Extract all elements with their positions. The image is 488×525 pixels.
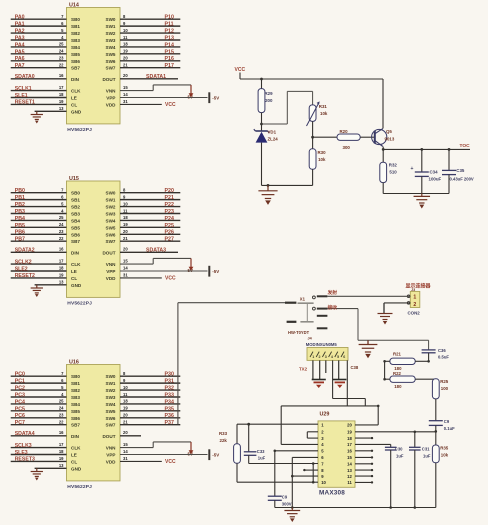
svg-text:14: 14	[123, 92, 128, 97]
wire PA4 to U14 pin 25	[11, 46, 67, 48]
svg-text:C36: C36	[438, 348, 446, 353]
wire U16 pin 10 to P32	[120, 389, 180, 391]
wire RESET1 to U14	[11, 103, 67, 105]
svg-text:P16: P16	[165, 56, 174, 62]
svg-text:MODINXUN0M5: MODINXUN0M5	[306, 342, 338, 347]
resistor R20 300	[337, 134, 360, 140]
svg-text:RESET2: RESET2	[15, 273, 35, 279]
svg-text:SW1: SW1	[106, 24, 116, 29]
svg-text:22: 22	[59, 420, 64, 425]
wire RESET3 to U16	[11, 460, 67, 462]
wire PB0 to U15 pin 7	[11, 192, 67, 194]
svg-text:R21: R21	[393, 351, 401, 356]
svg-text:PC3: PC3	[15, 392, 25, 398]
svg-text:SB5: SB5	[71, 225, 80, 230]
svg-text:HV5622PJ: HV5622PJ	[67, 484, 92, 490]
node VCC-R29 junction	[260, 78, 263, 81]
svg-text:21: 21	[123, 420, 128, 425]
svg-text:18: 18	[59, 266, 64, 271]
svg-text:R33: R33	[219, 431, 228, 436]
svg-text:20: 20	[347, 423, 352, 428]
wire U15 GND pin 13	[35, 284, 67, 286]
svg-text:11: 11	[123, 392, 128, 397]
svg-text:2: 2	[319, 355, 321, 359]
svg-text:300V: 300V	[282, 501, 292, 506]
wire U16 VPP pin 14 to -5V	[120, 454, 208, 456]
wire U29 pin9 tap	[292, 475, 318, 477]
svg-text:SB2: SB2	[71, 388, 80, 393]
svg-text:PC5: PC5	[15, 406, 25, 412]
svg-text:10k: 10k	[318, 157, 326, 162]
svg-text:PA2: PA2	[15, 28, 25, 34]
svg-text:13: 13	[59, 463, 64, 468]
capacitor C31 1uF	[414, 432, 416, 448]
wire U29 pin18 stub	[355, 437, 372, 439]
node emitter-R32	[382, 148, 385, 151]
ground module 2	[333, 379, 347, 381]
svg-text:16: 16	[59, 247, 64, 252]
svg-text:20: 20	[123, 56, 128, 61]
svg-text:31: 31	[123, 456, 128, 461]
module pins to ground 1	[312, 360, 314, 379]
node C33 top	[247, 423, 250, 426]
svg-text:SDATA1: SDATA1	[146, 74, 166, 80]
svg-text:C31: C31	[422, 447, 430, 452]
svg-text:P33: P33	[165, 392, 174, 398]
wire PA7 to U14 pin 22	[11, 67, 67, 69]
svg-text:21: 21	[123, 236, 128, 241]
svg-text:LE: LE	[71, 96, 77, 101]
svg-text:R20: R20	[340, 129, 349, 134]
svg-text:17: 17	[347, 442, 352, 447]
svg-text:C35: C35	[456, 168, 465, 173]
svg-text:SDATA4: SDATA4	[15, 431, 35, 437]
svg-text:C34: C34	[430, 170, 439, 175]
svg-text:1: 1	[312, 355, 314, 359]
svg-text:C9: C9	[444, 419, 450, 424]
svg-text:17: 17	[59, 85, 64, 90]
wire PC0 to U16 pin 7	[11, 375, 67, 377]
svg-text:CLK: CLK	[71, 89, 81, 94]
wire U16 DOUT pin 20	[120, 435, 141, 437]
svg-text:CLK: CLK	[71, 446, 81, 451]
wire PC5 to U16 pin 24	[11, 410, 67, 412]
ground connector pin2	[383, 303, 385, 314]
svg-text:VDD: VDD	[106, 276, 116, 281]
svg-text:R35: R35	[440, 446, 449, 451]
svg-text:SW0: SW0	[106, 17, 116, 22]
svg-text:C9: C9	[282, 495, 288, 500]
svg-text:Q5: Q5	[386, 129, 392, 134]
svg-text:TX2: TX2	[299, 367, 308, 372]
node C36-R21	[427, 360, 430, 363]
wire module pin step to H405 rail	[332, 360, 334, 398]
svg-text:SW2: SW2	[106, 31, 116, 36]
ground output stage	[421, 194, 423, 197]
svg-text:CL: CL	[71, 276, 77, 281]
wire PB5 to U15 pin 24	[11, 226, 67, 228]
svg-text:SW6: SW6	[106, 416, 116, 421]
svg-text:-5V: -5V	[212, 269, 219, 274]
svg-text:23: 23	[59, 56, 64, 61]
wire PA6 to U14 pin 23	[11, 60, 67, 62]
svg-text:PB4: PB4	[15, 216, 25, 222]
svg-text:200: 200	[265, 98, 273, 103]
svg-text:20: 20	[123, 247, 128, 252]
svg-text:0.43uF 200V: 0.43uF 200V	[450, 177, 474, 182]
svg-text:U15: U15	[69, 176, 79, 182]
wire PA5 to U14 pin 24	[11, 53, 67, 55]
svg-text:SW5: SW5	[106, 225, 116, 230]
zener diode VD1 ZL24	[261, 124, 263, 131]
svg-text:100uF: 100uF	[429, 177, 442, 182]
svg-text:LE: LE	[71, 269, 77, 274]
wire PA0 to U14 pin 7	[11, 18, 67, 20]
wire U15 pin 10 to P22	[120, 206, 180, 208]
svg-text:19: 19	[347, 430, 352, 435]
wire bottom ground rail	[275, 507, 436, 509]
svg-text:SCLK3: SCLK3	[15, 443, 32, 449]
wire VCC to Q5 collector	[382, 79, 384, 129]
wire PA3 to U14 pin 4	[11, 39, 67, 41]
svg-text:17: 17	[59, 259, 64, 264]
svg-text:PC1: PC1	[15, 379, 25, 385]
trimmer R31 10k	[309, 105, 316, 122]
svg-text:0.1uF: 0.1uF	[444, 426, 455, 431]
svg-text:2: 2	[413, 302, 416, 308]
svg-text:显示连接器: 显示连接器	[406, 283, 432, 290]
wire U29 short right stubs	[355, 450, 372, 452]
svg-text:C33: C33	[257, 449, 265, 454]
svg-text:SW7: SW7	[106, 423, 116, 428]
svg-text:VDD: VDD	[106, 102, 116, 107]
svg-text:15: 15	[123, 442, 128, 447]
svg-text:1uF: 1uF	[396, 453, 404, 458]
svg-text:SB1: SB1	[71, 24, 80, 29]
wire PC3 to U16 pin 4	[11, 396, 67, 398]
resistor R35 10k	[435, 431, 437, 445]
wire PB2 to U15 pin 5	[11, 206, 67, 208]
svg-text:P31: P31	[165, 379, 174, 385]
capacitor C8 300V	[268, 495, 282, 497]
svg-text:P30: P30	[165, 372, 174, 378]
module pins to ground 2	[338, 360, 340, 379]
node A junction	[260, 123, 263, 126]
svg-text:PB7: PB7	[15, 237, 25, 243]
svg-text:U29: U29	[320, 412, 330, 418]
svg-text:VDD: VDD	[106, 459, 116, 464]
svg-text:DOUT: DOUT	[102, 434, 115, 439]
resistor R22 180	[390, 376, 415, 382]
svg-text:SCLK1: SCLK1	[15, 86, 32, 92]
svg-text:VCC: VCC	[165, 276, 176, 282]
wire module pin C38	[346, 360, 348, 406]
svg-text:CLK: CLK	[71, 262, 81, 267]
wire U29 pin2 pin3 tie	[307, 431, 318, 433]
wire U14 DOUT pin 20 to SDATA1	[120, 78, 178, 80]
ground below U14	[36, 111, 38, 114]
wire riser to U29 pin4	[280, 406, 282, 445]
svg-text:SW4: SW4	[106, 402, 116, 407]
wire VCC to R29	[261, 79, 263, 89]
svg-text:R22: R22	[393, 371, 401, 376]
wire U16 VNN pin 15 to -5V	[120, 447, 153, 449]
svg-text:P24: P24	[165, 216, 174, 222]
wire X1 to U16 P37 row	[178, 302, 285, 304]
svg-text:SW5: SW5	[106, 409, 116, 414]
svg-text:SW4: SW4	[106, 45, 116, 50]
svg-text:SB3: SB3	[71, 211, 80, 216]
wire RESET2 to U15	[11, 277, 67, 279]
wire R33 bottom rail to U29 pin10	[237, 481, 318, 483]
wire U16 pin 9 to P31	[120, 382, 180, 384]
svg-text:15: 15	[123, 259, 128, 264]
svg-text:VCC: VCC	[165, 102, 176, 108]
wire VD1 to ground rail	[261, 143, 263, 186]
svg-text:CL: CL	[71, 459, 77, 464]
svg-text:14: 14	[123, 449, 128, 454]
svg-text:PC2: PC2	[15, 385, 25, 391]
svg-text:18: 18	[123, 42, 128, 47]
capacitor C36 0.5uF	[422, 349, 436, 351]
svg-text:PA7: PA7	[15, 63, 25, 69]
wire SDATA4 to U16 DIN pin 16	[11, 435, 67, 437]
svg-text:SB4: SB4	[71, 402, 80, 407]
svg-text:11: 11	[123, 208, 128, 213]
svg-text:SB3: SB3	[71, 395, 80, 400]
ground below U15	[36, 285, 38, 288]
wire R22 right to R25	[415, 378, 436, 380]
svg-text:VCC: VCC	[235, 67, 246, 73]
svg-text:13: 13	[59, 106, 64, 111]
svg-text:16: 16	[59, 430, 64, 435]
wire PB4 to U15 pin 25	[11, 219, 67, 221]
svg-text:SB0: SB0	[71, 17, 80, 22]
wire U14 pin 21 to P17	[120, 67, 180, 69]
wire PC2 to U16 pin 5	[11, 389, 67, 391]
wire R20 to Q5 base	[360, 136, 374, 138]
wire PC1 to U16 pin 6	[11, 382, 67, 384]
wire U29 pin6 riser	[292, 456, 318, 458]
svg-text:SW2: SW2	[106, 388, 116, 393]
resistor R29 200	[258, 89, 265, 113]
svg-text:PA0: PA0	[15, 15, 25, 21]
resistor R30 10k	[312, 137, 314, 149]
svg-text:20: 20	[123, 430, 128, 435]
svg-text:180: 180	[394, 384, 402, 389]
svg-text:C30: C30	[395, 447, 403, 452]
svg-text:DOUT: DOUT	[102, 250, 115, 255]
svg-text:P27: P27	[165, 237, 174, 243]
wire U14 GND pin 13	[35, 110, 67, 112]
wire U14 pin 11 to P13	[120, 39, 180, 41]
svg-text:SW6: SW6	[106, 59, 116, 64]
svg-text:16: 16	[347, 449, 352, 454]
wire SCLK2 to U15	[11, 263, 67, 265]
svg-text:10k: 10k	[441, 453, 449, 458]
svg-text:PC4: PC4	[15, 399, 25, 405]
wire U14 VDD pin 31 to VCC	[120, 103, 162, 105]
wire U29 pin17 to C30	[355, 443, 391, 445]
svg-text:P11: P11	[165, 22, 174, 28]
power -5V arrow	[190, 442, 192, 451]
svg-text:10k: 10k	[320, 111, 328, 116]
wire U16 pin 18 to P34	[120, 403, 180, 405]
svg-text:25: 25	[59, 399, 64, 404]
svg-text:18: 18	[123, 215, 128, 220]
svg-text:20: 20	[123, 229, 128, 234]
svg-text:DIN: DIN	[71, 434, 80, 439]
svg-text:10: 10	[321, 480, 326, 485]
svg-text:VNN: VNN	[106, 89, 116, 94]
svg-text:19: 19	[123, 49, 128, 54]
svg-text:22k: 22k	[220, 438, 228, 443]
svg-text:DOUT: DOUT	[102, 77, 115, 82]
svg-text:6: 6	[343, 355, 345, 359]
svg-text:P12: P12	[165, 28, 174, 34]
capacitor C33 1uF	[248, 424, 250, 452]
svg-text:C38: C38	[351, 365, 359, 370]
svg-text:ZL24: ZL24	[268, 137, 279, 142]
power -5V arrow	[190, 85, 192, 94]
svg-text:X1: X1	[300, 297, 306, 302]
wire RX net (jie shou)	[327, 308, 358, 310]
svg-text:发射: 发射	[327, 289, 338, 296]
svg-text:20: 20	[123, 413, 128, 418]
svg-text:1uF: 1uF	[258, 456, 266, 461]
svg-text:31: 31	[123, 99, 128, 104]
svg-text:P14: P14	[165, 42, 174, 48]
svg-text:SW1: SW1	[106, 381, 116, 386]
svg-text:SW7: SW7	[106, 66, 116, 71]
svg-text:P17: P17	[165, 63, 174, 69]
svg-text:PB2: PB2	[15, 202, 25, 208]
svg-text:PB6: PB6	[15, 230, 25, 236]
svg-text:RESET1: RESET1	[15, 100, 35, 106]
node bias ground junction	[267, 184, 270, 187]
svg-text:SB5: SB5	[71, 409, 80, 414]
wire PA1 to U14 pin 6	[11, 25, 67, 27]
svg-text:21: 21	[123, 63, 128, 68]
svg-text:P20: P20	[165, 188, 174, 194]
svg-text:SW5: SW5	[106, 52, 116, 57]
svg-text:MAX308: MAX308	[319, 490, 345, 497]
svg-text:GND: GND	[71, 466, 82, 471]
svg-text:VCC: VCC	[165, 459, 176, 465]
svg-text:15: 15	[123, 85, 128, 90]
svg-text:VPP: VPP	[106, 453, 115, 458]
wire U14 pin 20 to P16	[120, 60, 180, 62]
wire emitter output rail to TOC	[383, 148, 470, 150]
svg-text:10: 10	[123, 201, 128, 206]
svg-text:100: 100	[441, 386, 449, 391]
wire connector pin2	[384, 302, 410, 304]
resistor R32 510	[382, 149, 384, 162]
ground bottom rail	[291, 508, 293, 511]
wire U14 pin 10 to P12	[120, 32, 180, 34]
svg-text:P37: P37	[165, 420, 174, 426]
svg-text:PC6: PC6	[15, 413, 25, 419]
svg-text:18: 18	[59, 449, 64, 454]
svg-text:1: 1	[413, 295, 416, 301]
resistor R25 100	[432, 379, 439, 399]
svg-text:VPP: VPP	[106, 269, 115, 274]
wire PB3 to U15 pin 4	[11, 212, 67, 214]
power -5V bar	[208, 92, 210, 103]
wire R21 right to C36 node	[415, 360, 428, 362]
svg-text:3: 3	[325, 355, 327, 359]
svg-text:14: 14	[347, 462, 352, 467]
wire VCC rail	[239, 73, 241, 80]
svg-text:18: 18	[347, 436, 352, 441]
wire U15 VNN pin 15 to -5V	[120, 263, 153, 265]
wire output ground rail	[383, 193, 449, 195]
wire pin20 riser	[377, 406, 379, 425]
svg-text:11: 11	[347, 480, 352, 485]
svg-text:24: 24	[59, 222, 64, 227]
svg-text:0.5uF: 0.5uF	[438, 354, 449, 359]
svg-text:VD1: VD1	[268, 130, 277, 135]
wire U15 pin 19 to P25	[120, 226, 180, 228]
svg-text:PA1: PA1	[15, 22, 25, 28]
wire R21 R22 left tie	[385, 360, 390, 362]
svg-text:SW3: SW3	[106, 38, 116, 43]
node C9-pin19	[435, 430, 438, 433]
svg-text:SB4: SB4	[71, 218, 80, 223]
ground bias network	[267, 185, 269, 190]
wire bias bottom rail	[262, 184, 313, 186]
wire SDATA2 to U15 DIN pin 16	[11, 251, 67, 253]
svg-text:31: 31	[123, 272, 128, 277]
svg-text:P26: P26	[165, 230, 174, 236]
wire U15 pin 21 to P27	[120, 240, 180, 242]
capacitor C34 100uF electrolytic	[421, 149, 423, 172]
wire U29 pin19 to C9 node	[355, 431, 436, 433]
wire R33 rail to U29 pin1	[237, 423, 318, 425]
svg-text:P36: P36	[165, 413, 174, 419]
svg-text:SW4: SW4	[106, 218, 116, 223]
svg-text:SB1: SB1	[71, 381, 80, 386]
svg-text:25: 25	[59, 42, 64, 47]
svg-text:HV5622PJ: HV5622PJ	[67, 301, 92, 307]
svg-text:24: 24	[59, 406, 64, 411]
svg-text:GND: GND	[71, 283, 82, 288]
wire TX net (fa she)	[327, 295, 410, 297]
svg-text:SW7: SW7	[106, 239, 116, 244]
svg-text:SB6: SB6	[71, 59, 80, 64]
svg-text:22: 22	[59, 63, 64, 68]
svg-text:SW2: SW2	[106, 205, 116, 210]
svg-text:HW-T0YDT: HW-T0YDT	[288, 330, 310, 335]
svg-text:19: 19	[59, 99, 64, 104]
svg-text:5: 5	[337, 355, 339, 359]
svg-text:SB2: SB2	[71, 31, 80, 36]
svg-text:PA4: PA4	[15, 42, 25, 48]
svg-text:SB3: SB3	[71, 38, 80, 43]
svg-text:PB3: PB3	[15, 209, 25, 215]
svg-text:SW1: SW1	[106, 198, 116, 203]
wire U16 pin 11 to P33	[120, 396, 180, 398]
svg-text:SW0: SW0	[106, 374, 116, 379]
svg-text:SB7: SB7	[71, 66, 80, 71]
svg-text:+: +	[411, 166, 414, 172]
svg-text:SB6: SB6	[71, 416, 80, 421]
svg-text:RESET3: RESET3	[15, 457, 35, 463]
svg-text:25: 25	[59, 215, 64, 220]
wire C33 bottom rail to pin7	[249, 463, 318, 465]
svg-text:23: 23	[59, 229, 64, 234]
svg-text:-5V: -5V	[212, 452, 219, 457]
